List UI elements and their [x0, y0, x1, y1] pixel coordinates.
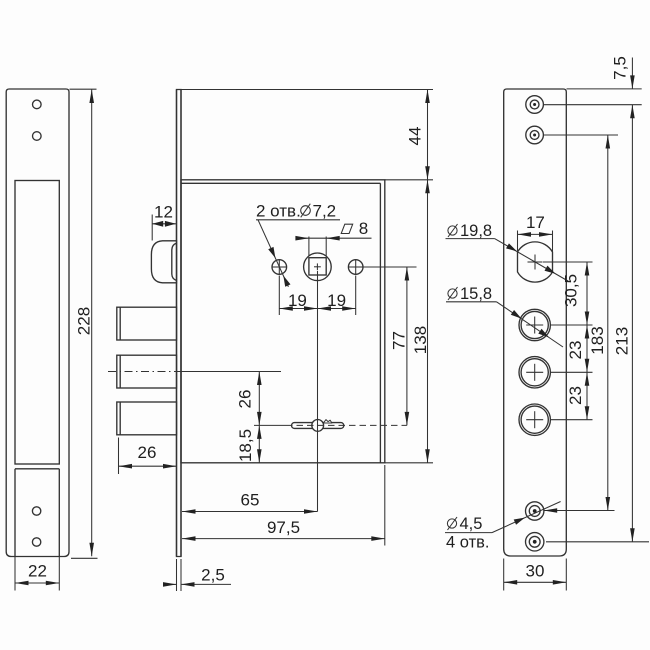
dim 97,5 line	[182, 538, 385, 540]
dim 19-19 line	[279, 308, 355, 310]
top screw hole 1	[526, 96, 544, 114]
hole4 reference	[551, 419, 593, 421]
dim 183 vertical line	[607, 135, 609, 511]
svg-text:97,5: 97,5	[267, 518, 300, 537]
dim 12 line	[152, 223, 176, 225]
bolt 26 extension	[118, 438, 120, 475]
label d15,8	[448, 289, 457, 298]
leader d4,5	[492, 502, 561, 533]
label d19,8	[448, 226, 457, 235]
svg-text:2 отв.: 2 отв.	[256, 202, 301, 221]
label underline	[256, 219, 340, 221]
faceplate bottom screw hole 1	[32, 507, 40, 515]
label d4,5 4 otv	[447, 519, 456, 528]
svg-text:77: 77	[390, 331, 409, 350]
faceplate recess rectangle	[15, 181, 59, 465]
leader to hole	[258, 220, 288, 287]
cover plate outline	[504, 89, 567, 556]
hole2 reference	[551, 324, 593, 326]
faceplate edge strip	[177, 90, 182, 557]
spindle square hole	[309, 258, 326, 275]
latch bolt	[151, 241, 176, 283]
dim 26/18.5 vertical line	[258, 372, 260, 463]
dim 12 extension	[151, 215, 153, 241]
svg-text:213: 213	[613, 327, 632, 355]
bolt dim 26 line	[119, 465, 177, 467]
deadbolt 1	[117, 307, 177, 340]
round hole 3	[519, 357, 550, 388]
hole3 reference	[551, 371, 593, 373]
dim 17 extensions	[517, 231, 519, 252]
bottom screw1 reference with arrow	[544, 510, 615, 512]
svg-text:65: 65	[241, 491, 260, 510]
big cylinder hole	[518, 242, 553, 282]
deadbolt 2	[117, 355, 177, 388]
dim 19-19 extensions	[278, 276, 280, 316]
faceplate top screw hole 1	[33, 100, 42, 109]
lock body inner top edge	[181, 182, 380, 184]
upper right hole	[348, 260, 363, 275]
body bottom right extension	[385, 462, 433, 464]
faceplate bottom pad top edge	[15, 468, 59, 470]
svg-text:4,5: 4,5	[460, 515, 483, 533]
strip top reference line (44)	[181, 89, 433, 91]
lock body outline	[181, 180, 385, 463]
bottom screw2 reference	[546, 541, 649, 543]
faceplate bottom screw hole 2	[32, 538, 40, 546]
svg-text:30: 30	[526, 562, 545, 581]
svg-text:26: 26	[236, 390, 255, 409]
svg-text:19: 19	[288, 291, 307, 310]
dim 30,5/23/23 vertical line	[586, 262, 588, 420]
svg-text:7,5: 7,5	[611, 56, 630, 80]
dim 44/138 vertical line	[427, 90, 429, 463]
svg-text:23: 23	[566, 386, 585, 405]
svg-text:15,8: 15,8	[460, 285, 492, 303]
dim 65 line	[182, 511, 318, 513]
dim 30 extensions	[503, 559, 505, 591]
svg-text:17: 17	[526, 213, 545, 232]
plate top reference	[567, 88, 642, 90]
faceplate outer plate	[6, 89, 69, 557]
svg-text:8: 8	[359, 219, 368, 238]
lock body inner right edge	[379, 183, 381, 463]
dim 30 line	[504, 581, 567, 583]
upper left hole	[272, 260, 287, 275]
faceplate top screw hole 2	[33, 132, 42, 141]
big hole reference	[543, 261, 593, 263]
keyhole centerline	[254, 424, 286, 426]
svg-text:22: 22	[28, 562, 47, 581]
svg-text:19: 19	[327, 291, 346, 310]
dim 22 extension right	[58, 557, 60, 591]
svg-text:18,5: 18,5	[236, 429, 255, 462]
body top right extension	[385, 179, 433, 181]
top screw hole 2	[526, 126, 544, 144]
keyhole	[292, 423, 344, 429]
dim 77 line	[406, 267, 408, 425]
dim 228 extension top	[70, 88, 97, 90]
dim 97,5 right extension	[384, 465, 386, 546]
svg-text:138: 138	[411, 326, 430, 354]
svg-text:30,5: 30,5	[562, 274, 581, 307]
latch bevel line	[172, 243, 177, 280]
svg-text:26: 26	[138, 443, 157, 462]
faceplate pad right side	[58, 469, 60, 557]
dim 228 line	[91, 90, 93, 557]
dim 17 line	[518, 233, 553, 235]
center vertical line	[317, 271, 319, 512]
hole right reference line	[363, 266, 417, 268]
svg-text:12: 12	[154, 203, 173, 222]
bolt2 centerline solid inside body	[181, 371, 281, 373]
svg-text:4 отв.: 4 отв.	[446, 534, 489, 552]
screw hole2 reference	[543, 134, 618, 136]
deadbolt 3	[117, 402, 177, 435]
bolt2 centerline dash-dot	[108, 371, 181, 373]
dim 2,5 line segments	[164, 583, 177, 585]
dim 228 extension bottom	[71, 557, 98, 559]
svg-text:23: 23	[566, 341, 585, 360]
svg-text:44: 44	[406, 127, 425, 146]
screw hole1 reference	[543, 104, 641, 106]
bottom screw hole 1	[526, 502, 544, 520]
square symbol	[341, 224, 353, 233]
leader d15,8	[497, 302, 564, 347]
dim 2,5 extensions	[176, 559, 178, 591]
svg-text:7,2: 7,2	[313, 202, 337, 221]
svg-text:2,5: 2,5	[201, 566, 225, 585]
round hole 4	[519, 404, 550, 435]
spindle boss circle	[304, 253, 332, 281]
dim 22 line	[15, 582, 59, 584]
round hole 2	[519, 309, 550, 340]
strip redraw over bolts	[176, 90, 178, 557]
svg-text:19,8: 19,8	[460, 222, 492, 240]
svg-text:228: 228	[75, 307, 94, 335]
bottom screw hole 2	[526, 533, 544, 551]
faceplate pad left side	[14, 469, 16, 557]
dim 8 line	[300, 237, 372, 239]
dim 7,5/213 vertical line	[631, 58, 633, 89]
dim 22 extension left	[14, 557, 16, 591]
dim 8 extensions	[308, 237, 310, 257]
leader d19,8	[495, 239, 568, 281]
svg-text:183: 183	[588, 326, 607, 354]
